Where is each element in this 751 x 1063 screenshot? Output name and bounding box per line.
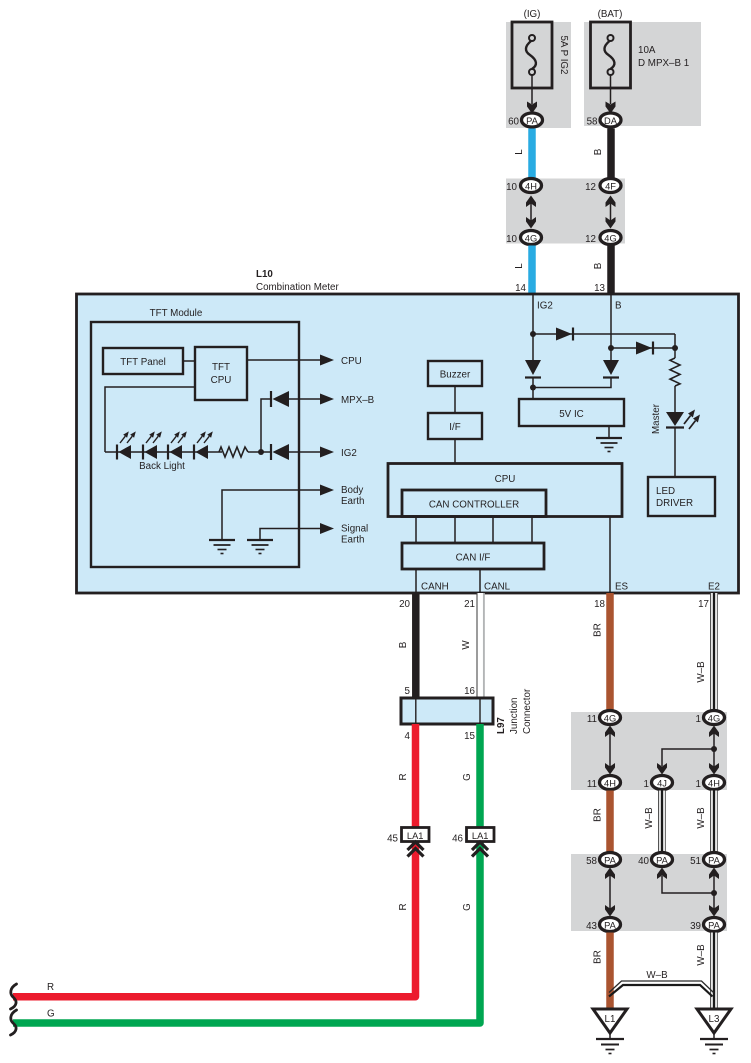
shaded connector area PA band <box>571 854 727 931</box>
svg-text:B: B <box>593 262 604 269</box>
svg-text:51: 51 <box>690 856 701 867</box>
svg-text:BR: BR <box>593 623 604 637</box>
wire L (blue) 4G to meter pin 14 <box>528 246 536 295</box>
svg-text:4H: 4H <box>604 779 616 789</box>
svg-text:MPX–B: MPX–B <box>341 395 375 406</box>
svg-text:Master: Master <box>651 403 662 434</box>
junction arrows 4F to 4G <box>606 196 616 229</box>
svg-text:Connector: Connector <box>522 688 533 734</box>
connector pin 43 PA <box>586 918 620 933</box>
svg-text:L: L <box>514 263 525 269</box>
svg-text:W–B: W–B <box>644 807 655 829</box>
svg-text:PA: PA <box>526 116 539 126</box>
wire CANL internal <box>479 569 481 593</box>
connector pin 10 4G <box>506 231 541 246</box>
LED master <box>666 410 700 430</box>
label L97 Junction Connector <box>496 688 533 734</box>
node 4G branch <box>711 746 717 752</box>
resistor master LED <box>670 358 680 386</box>
diode IG2 down to 5V <box>525 360 541 378</box>
svg-text:CPU: CPU <box>495 474 516 485</box>
I/F block <box>428 413 482 439</box>
diode B to LED branch <box>636 342 653 355</box>
svg-text:W–B: W–B <box>646 970 668 981</box>
resistor backlight <box>219 447 248 457</box>
svg-text:DA: DA <box>604 116 618 126</box>
wire resistor to master LED <box>674 386 676 412</box>
LED D2 back light <box>143 431 162 459</box>
svg-text:46: 46 <box>452 834 463 845</box>
wire B (black) 4G to meter pin 13 <box>607 246 615 295</box>
svg-text:Earth: Earth <box>341 496 364 507</box>
node 51/40 branch <box>711 890 717 896</box>
svg-text:TFT: TFT <box>212 362 230 373</box>
connector pin 11 4H <box>587 776 621 791</box>
svg-text:12: 12 <box>585 234 596 245</box>
arrow CPU <box>320 355 334 366</box>
svg-text:17: 17 <box>698 599 709 610</box>
svg-text:CPU: CPU <box>341 356 362 367</box>
svg-text:B: B <box>398 641 409 648</box>
arrow into 4J <box>657 763 667 775</box>
connector pin 1 4G right <box>696 711 725 726</box>
svg-text:4H: 4H <box>708 779 720 789</box>
ground 5V IC <box>596 438 622 452</box>
connector pin 12 4G <box>585 231 621 246</box>
svg-text:10: 10 <box>506 182 517 193</box>
svg-text:DRIVER: DRIVER <box>656 498 693 509</box>
svg-text:(BAT): (BAT) <box>598 9 623 20</box>
wire B (black) DA to 4F <box>607 129 615 179</box>
arrow Signal Earth <box>320 523 334 534</box>
svg-text:E2: E2 <box>708 582 720 593</box>
svg-text:G: G <box>462 903 473 911</box>
shaded connector area 4H/4F to 4G <box>506 179 625 244</box>
wire L (blue) PA to 4H <box>528 129 536 179</box>
TFT Panel block <box>103 348 183 374</box>
wire node to IG2 diode <box>261 451 271 453</box>
svg-text:D MPX–B 1: D MPX–B 1 <box>638 58 689 69</box>
connector pin 10 4H <box>506 179 541 194</box>
svg-text:LA1: LA1 <box>407 831 424 841</box>
ground body earth <box>209 540 235 554</box>
wire diode to IG2 arrow <box>289 451 321 453</box>
svg-text:ES: ES <box>615 582 629 593</box>
svg-text:W: W <box>461 640 472 650</box>
svg-text:PA: PA <box>604 921 617 931</box>
svg-text:W–B: W–B <box>696 661 707 683</box>
svg-text:L3: L3 <box>709 1014 720 1025</box>
svg-text:20: 20 <box>399 599 410 610</box>
svg-text:L: L <box>514 149 525 155</box>
junction arrows 1 4G to 1 4H <box>709 726 719 775</box>
node B branch <box>608 345 614 351</box>
svg-text:43: 43 <box>586 921 597 932</box>
wire diode to MPX-B arrow <box>289 398 321 400</box>
wire B diode out to join <box>533 378 611 388</box>
svg-text:5: 5 <box>405 686 411 697</box>
arrow MPX-B <box>320 394 334 405</box>
ground signal earth <box>247 540 273 554</box>
svg-text:W–B: W–B <box>696 807 707 829</box>
diode MPX-B feed <box>271 391 289 407</box>
CPU block <box>388 464 622 517</box>
wire B node to LED branch <box>611 347 675 349</box>
wire B internal <box>610 294 612 360</box>
svg-text:PA: PA <box>708 921 721 931</box>
wire TFT Panel to TFT CPU <box>183 360 195 362</box>
connector pin 1 4J <box>644 776 673 791</box>
svg-text:CANH: CANH <box>421 582 449 593</box>
svg-text:(IG): (IG) <box>524 9 541 20</box>
svg-text:CAN CONTROLLER: CAN CONTROLLER <box>429 500 519 511</box>
wire ES internal <box>609 517 611 594</box>
svg-text:G: G <box>462 773 473 781</box>
svg-text:45: 45 <box>387 834 398 845</box>
svg-text:4H: 4H <box>525 182 537 192</box>
svg-text:Back Light: Back Light <box>139 461 185 472</box>
wire IG2 diode out to 5V IC <box>532 378 534 400</box>
wire body earth <box>222 490 321 540</box>
wire W-B link between grounds <box>609 981 714 997</box>
svg-text:4G: 4G <box>604 234 616 244</box>
svg-text:CANL: CANL <box>484 582 511 593</box>
svg-text:4G: 4G <box>525 234 537 244</box>
svg-text:PA: PA <box>604 856 617 866</box>
wire W-B 39 PA to ground L3 <box>710 933 718 1011</box>
wire R (red) LA1 down to corner and left <box>13 828 416 997</box>
connector pin 39 PA <box>690 918 724 933</box>
svg-text:40: 40 <box>638 856 649 867</box>
wire fuse BAT to connector DA with arrow <box>606 75 616 114</box>
connector pin 60 PA <box>508 113 542 128</box>
wire I/F to CPU <box>454 439 456 464</box>
svg-text:TFT Panel: TFT Panel <box>120 357 166 368</box>
TFT CPU block <box>195 347 247 400</box>
connector pin 58 DA <box>587 113 621 128</box>
wire W-B 4J to 40 PA <box>658 791 666 853</box>
svg-text:13: 13 <box>594 283 605 294</box>
wire G (green) LA1 down to corner and left <box>13 828 480 1023</box>
svg-text:BR: BR <box>593 808 604 822</box>
diode B down to 5V <box>603 360 619 378</box>
ground L3 <box>697 1009 731 1054</box>
wire W-B E2 to 4G <box>710 593 718 710</box>
svg-text:W–B: W–B <box>696 944 707 966</box>
wire master LED to LED driver <box>674 428 676 478</box>
connector pin 40 PA <box>638 853 672 868</box>
wire CANH internal <box>415 569 417 593</box>
diode IG2 to LED branch <box>556 328 573 341</box>
svg-text:G: G <box>47 1009 55 1020</box>
svg-text:B: B <box>615 301 622 312</box>
node LED branch join <box>672 345 678 351</box>
LED D4 back light <box>194 431 213 459</box>
svg-text:BR: BR <box>593 950 604 964</box>
wire W-B 4H to 51 PA <box>710 791 718 853</box>
fuse 10A D MPX-B 1 <box>591 22 631 88</box>
LED DRIVER block <box>648 477 715 516</box>
wire LED branch corner <box>674 334 676 358</box>
shield arrows 45 LA1 <box>408 842 424 857</box>
svg-text:PA: PA <box>708 856 721 866</box>
wire TFT CPU to CPU arrow <box>247 359 321 361</box>
svg-text:11: 11 <box>587 714 597 725</box>
wire resistor to node <box>248 451 262 453</box>
wire backlight chain <box>105 451 222 453</box>
fuse 5A P IG2 <box>512 22 552 88</box>
svg-text:15: 15 <box>464 731 475 742</box>
svg-text:PA: PA <box>656 856 669 866</box>
svg-text:I/F: I/F <box>449 422 460 433</box>
node IG2 branch <box>530 331 536 337</box>
wire IG2 node to LED branch <box>533 333 675 335</box>
wire 5V IC to ground <box>608 426 610 438</box>
Buzzer block <box>428 361 482 386</box>
svg-text:11: 11 <box>587 779 597 790</box>
wire signal earth <box>260 529 321 541</box>
5V IC block <box>519 399 624 426</box>
connector pin 11 4G <box>587 711 621 726</box>
ground L1 <box>593 1009 627 1054</box>
wire B (black) CANH to junction connector <box>412 593 420 698</box>
junction arrows 4H to 4G <box>526 196 536 229</box>
svg-text:4J: 4J <box>657 779 667 789</box>
connector pin 1 4H right <box>696 776 725 791</box>
svg-text:CPU: CPU <box>211 375 232 386</box>
svg-text:4F: 4F <box>605 182 616 192</box>
svg-text:39: 39 <box>690 921 701 932</box>
svg-text:5A P IG2: 5A P IG2 <box>558 35 569 74</box>
svg-text:CAN I/F: CAN I/F <box>456 553 491 564</box>
svg-text:IG2: IG2 <box>537 301 553 312</box>
svg-text:18: 18 <box>594 599 605 610</box>
junction arrows 11 4G to 11 4H <box>605 726 615 775</box>
svg-text:L97: L97 <box>496 717 507 734</box>
svg-text:10A: 10A <box>638 45 656 56</box>
wire G (green) junction to LA1 <box>476 724 484 828</box>
connector 45 LA1 <box>387 828 429 845</box>
svg-text:R: R <box>398 773 409 780</box>
connector pin 12 4F <box>585 179 621 194</box>
connector 46 LA1 <box>452 828 494 845</box>
wire BR (brown) ES to 4G <box>606 593 614 710</box>
shield arrows 46 LA1 <box>472 842 488 857</box>
junction arrows 58 PA to 43 PA <box>605 868 615 917</box>
svg-text:L1: L1 <box>605 1014 616 1025</box>
svg-text:1: 1 <box>696 714 701 725</box>
CAN CONTROLLER block <box>402 490 546 517</box>
svg-text:16: 16 <box>464 686 475 697</box>
arrow Body Earth <box>320 485 334 496</box>
svg-text:R: R <box>398 903 409 910</box>
svg-text:1: 1 <box>644 779 649 790</box>
svg-text:4G: 4G <box>604 714 616 724</box>
wire IG2 internal <box>532 294 534 360</box>
svg-text:B: B <box>593 148 604 155</box>
LED D3 back light <box>168 431 187 459</box>
svg-text:21: 21 <box>464 599 475 610</box>
junction arrows 51 PA to 39 PA <box>709 868 719 917</box>
wire BR (brown) 43 PA to ground L1 <box>606 933 614 1011</box>
LED D1 back light <box>117 431 136 459</box>
wires CAN controller to CAN I/F <box>416 517 532 544</box>
arrow into 40 PA and branch <box>657 868 714 894</box>
svg-text:R: R <box>47 982 54 993</box>
svg-text:Combination Meter: Combination Meter <box>256 282 340 293</box>
shaded relay-block area (BAT fuse) <box>584 22 701 126</box>
svg-text:LED: LED <box>656 486 675 497</box>
node 5V join <box>530 385 536 391</box>
svg-text:TFT Module: TFT Module <box>150 308 203 319</box>
svg-text:IG2: IG2 <box>341 448 357 459</box>
svg-text:Junction: Junction <box>509 698 520 735</box>
connector pin 51 PA <box>690 853 724 868</box>
diode IG2 feed <box>271 444 289 460</box>
svg-text:10: 10 <box>506 234 517 245</box>
combination meter L10 body <box>77 294 739 593</box>
CAN I/F block <box>402 543 544 569</box>
shaded relay-block area (IG fuse) <box>506 22 571 128</box>
svg-text:Body: Body <box>341 485 363 496</box>
svg-text:1: 1 <box>696 779 701 790</box>
svg-text:Buzzer: Buzzer <box>440 370 471 381</box>
svg-text:4G: 4G <box>708 714 720 724</box>
svg-text:58: 58 <box>587 117 598 128</box>
connector pin 58 PA <box>586 853 620 868</box>
svg-text:58: 58 <box>586 856 597 867</box>
continuation squiggle red wire <box>11 984 17 1009</box>
wire R (red) junction to LA1 <box>412 724 420 828</box>
svg-text:5V IC: 5V IC <box>559 409 584 420</box>
wire node up to MPX-B diode <box>261 399 271 452</box>
continuation squiggle green wire <box>11 1010 17 1035</box>
svg-text:L10: L10 <box>256 269 273 280</box>
node backlight junction <box>258 449 264 455</box>
TFT Module box <box>91 322 299 567</box>
wire fuse IG to connector PA with arrow <box>527 75 537 114</box>
svg-text:Earth: Earth <box>341 535 364 546</box>
wire W (white) CANL to junction connector <box>477 593 484 698</box>
wire TFT CPU left to backlight chain <box>105 387 195 452</box>
svg-text:LA1: LA1 <box>472 831 489 841</box>
wire branch to 4J <box>662 749 714 766</box>
svg-text:60: 60 <box>508 117 519 128</box>
svg-text:4: 4 <box>405 731 411 742</box>
shaded connector area 4G to 4H/4J <box>571 712 727 790</box>
arrow IG2 <box>320 447 334 458</box>
wire BR (brown) 4H to PA <box>606 791 614 853</box>
junction connector L97 <box>401 698 493 724</box>
svg-text:14: 14 <box>515 283 526 294</box>
svg-text:12: 12 <box>585 182 596 193</box>
svg-text:Signal: Signal <box>341 524 368 535</box>
wire buzzer to I/F <box>454 386 456 413</box>
